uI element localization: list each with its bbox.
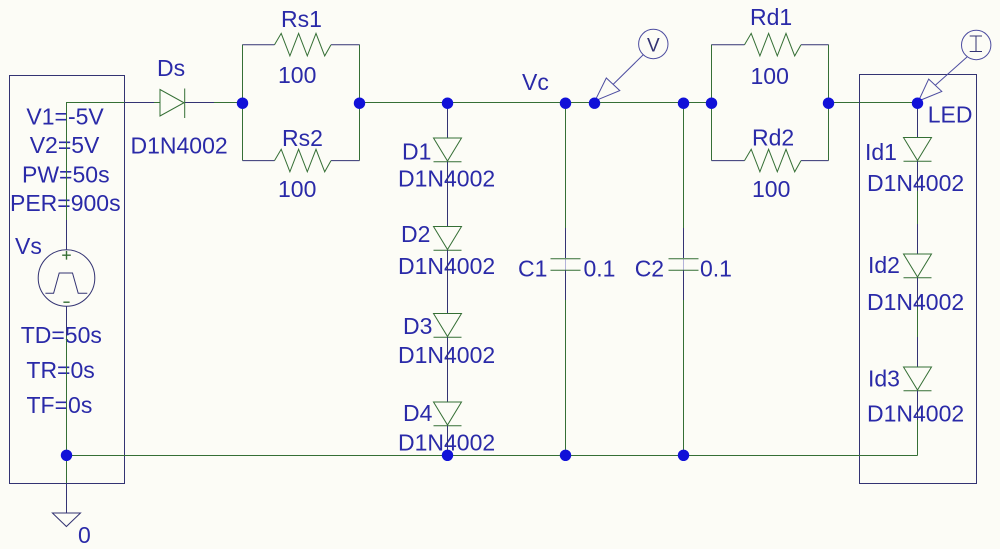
svg-text:PW=50s: PW=50s	[22, 162, 110, 188]
wire Id3 to bottom rail	[917, 391, 919, 456]
svg-text:D1N4002: D1N4002	[131, 133, 228, 159]
svg-text:D1N4002: D1N4002	[398, 166, 495, 192]
wire Rs left riser	[242, 45, 244, 161]
svg-text:100: 100	[278, 62, 316, 88]
svg-text:C1: C1	[518, 256, 547, 282]
junction at D1 top	[442, 98, 453, 109]
svg-text:Rd1: Rd1	[750, 4, 792, 30]
svg-text:100: 100	[752, 176, 790, 202]
wire Id2 to Id3	[917, 278, 919, 367]
diode Id3	[904, 367, 932, 391]
wire Rd left riser	[711, 45, 713, 161]
current probe I	[919, 30, 991, 101]
diode D1	[434, 103, 462, 162]
voltage source Vs bounding box	[10, 76, 125, 484]
capacitor C2	[669, 103, 699, 456]
LED bounding box	[860, 75, 977, 484]
resistor Rd2	[712, 149, 829, 172]
diode Id1	[904, 103, 932, 161]
junction at V probe	[589, 98, 600, 109]
junction at Rd left	[706, 98, 717, 109]
svg-text:100: 100	[278, 176, 316, 202]
svg-text:V2=5V: V2=5V	[30, 132, 100, 158]
ground 0	[52, 483, 80, 527]
diode D4	[434, 402, 462, 426]
svg-text:Ds: Ds	[157, 55, 185, 81]
junction at C2 bottom	[678, 450, 689, 461]
junction at Rd right	[823, 98, 834, 109]
svg-text:C2: C2	[635, 256, 664, 282]
svg-text:TD=50s: TD=50s	[21, 322, 102, 348]
wire Rs right riser	[359, 45, 361, 161]
svg-text:Vs: Vs	[15, 233, 42, 259]
svg-text:PER=900s: PER=900s	[10, 190, 121, 216]
wire Vs bottom to ground rail	[66, 336, 68, 483]
junction at Rs right	[354, 98, 365, 109]
svg-text:Id2: Id2	[868, 252, 900, 278]
wire Rs to D1 junction	[360, 102, 448, 104]
svg-text:D1N4002: D1N4002	[398, 342, 495, 368]
svg-text:D1N4002: D1N4002	[867, 170, 964, 196]
svg-text:0.1: 0.1	[584, 256, 616, 282]
wire Rd to LED junction	[829, 102, 918, 104]
svg-text:Rd2: Rd2	[752, 125, 794, 151]
voltage source Vs	[38, 220, 95, 336]
junction at C1 bottom	[560, 450, 571, 461]
voltage probe V	[595, 29, 668, 101]
junction at Rs left	[237, 98, 248, 109]
resistor Rs1	[243, 33, 360, 56]
wire D1 to D2	[447, 162, 449, 227]
svg-text:Id1: Id1	[865, 139, 897, 165]
junction at Vs bottom	[61, 450, 72, 461]
diode Ds	[125, 89, 215, 119]
svg-text:LED: LED	[928, 102, 973, 128]
svg-text:D1N4002: D1N4002	[398, 253, 495, 279]
junction at LED top	[912, 98, 923, 109]
diode Id2	[904, 254, 932, 278]
resistor Rd1	[712, 33, 829, 56]
wire probe junction to C2 junction	[595, 102, 684, 104]
wire D1 junction to C1 junction	[448, 102, 566, 104]
svg-text:100: 100	[751, 63, 789, 89]
svg-text:Id3: Id3	[868, 366, 900, 392]
svg-text:D1: D1	[402, 139, 431, 165]
svg-text:D2: D2	[401, 221, 430, 247]
svg-text:D3: D3	[403, 313, 432, 339]
wire D2 to D3	[447, 250, 449, 313]
svg-text:D1N4002: D1N4002	[867, 289, 964, 315]
svg-text:Rs1: Rs1	[281, 6, 322, 32]
resistor Rs2	[243, 149, 360, 172]
wire Ds to Rs junction	[214, 102, 243, 104]
diode D2	[434, 227, 462, 251]
wire bottom rail	[67, 455, 918, 457]
wire Id1 to Id2	[917, 161, 919, 254]
junction at D4 bottom	[442, 450, 453, 461]
svg-text:0: 0	[78, 522, 91, 548]
svg-text:D4: D4	[403, 400, 433, 426]
capacitor C1	[551, 103, 581, 456]
svg-text:Rs2: Rs2	[282, 125, 323, 151]
svg-text:V1=-5V: V1=-5V	[26, 104, 104, 130]
diode D3	[434, 314, 462, 338]
wire C1 to probe junction	[566, 102, 595, 104]
wire C2 to Rd junction	[684, 102, 712, 104]
svg-text:TF=0s: TF=0s	[27, 392, 93, 418]
junction at C2 top	[678, 98, 689, 109]
wire Rd right riser	[828, 45, 830, 161]
svg-text:Vc: Vc	[522, 69, 549, 95]
svg-text:V: V	[647, 36, 660, 57]
wire Vs top to node A	[67, 103, 125, 221]
svg-text:0.1: 0.1	[700, 256, 732, 282]
svg-text:TR=0s: TR=0s	[26, 357, 94, 383]
wire D3 to D4	[447, 337, 449, 402]
wire D4 to bottom rail	[447, 426, 449, 455]
junction at C1 top	[560, 98, 571, 109]
svg-text:D1N4002: D1N4002	[867, 401, 964, 427]
